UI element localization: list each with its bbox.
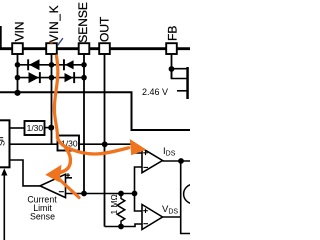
wire comparator plus input stub	[66, 177, 73, 179]
wire diode row 2	[18, 77, 85, 79]
diode D4 (VIN_K/SENSE bottom, pointing right)	[65, 73, 74, 82]
svg-text:FB: FB	[166, 26, 180, 41]
svg-text:VDS: VDS	[162, 204, 178, 216]
wire FB to amp top input	[172, 69, 187, 79]
diode D3 (VIN_K/SENSE top, pointing left)	[63, 59, 65, 70]
wire block to box1	[10, 127, 25, 129]
svg-text:1/30: 1/30	[27, 123, 44, 133]
junction dot FB	[169, 66, 175, 72]
junction dot SENSE row1	[81, 62, 87, 68]
junction dot VIN on W1	[14, 90, 20, 96]
svg-text:1 MΩ: 1 MΩ	[109, 194, 119, 214]
wire comparator output to block	[10, 160, 41, 186]
wire box2 output to IDS plus	[79, 144, 142, 153]
junction dot IDS output	[178, 158, 184, 164]
wire OUT vertical	[104, 54, 106, 227]
orange annotation descent from VIN_K	[54, 56, 58, 138]
op-amp IDS	[142, 148, 163, 173]
wire right vertical from IDS out down	[181, 161, 190, 234]
wire FB right	[172, 68, 189, 70]
resistor 1 Mohm	[117, 194, 125, 227]
wire block to box2	[10, 143, 58, 145]
wire 2.46V to amp	[177, 90, 187, 92]
plus symbol comparator	[66, 173, 70, 177]
junction dot SENSE row2	[81, 75, 87, 81]
junction dot box1/VIN_K	[48, 125, 54, 131]
wire SENSE vertical	[83, 54, 85, 194]
pen artifact blue dash above VIN_K	[58, 39, 63, 45]
wire left-edge stub above rail	[0, 26, 2, 49]
svg-text:IDS: IDS	[163, 146, 176, 158]
wire VDS output	[163, 216, 181, 218]
svg-text:S: S	[0, 140, 6, 146]
svg-text:OUT: OUT	[97, 16, 111, 42]
pin FB	[166, 43, 177, 54]
wire W1 long horizontal then down then right	[0, 92, 190, 130]
comparator U1 current limit sense (pointing left)	[40, 174, 66, 197]
diode D2 (VIN/VIN_K bottom, pointing right)	[29, 72, 39, 83]
wire IDS minus input	[135, 167, 143, 211]
minus symbol comparator	[59, 191, 64, 193]
top rail (device boundary)	[0, 47, 190, 50]
box 1/30 first	[25, 121, 45, 135]
orange arrowhead left (at comparator plus)	[45, 165, 61, 183]
wire comparator minus input (W3)	[66, 193, 135, 195]
svg-text:VIN: VIN	[12, 21, 26, 41]
block text fragment	[0, 137, 3, 138]
pin SENSE	[79, 43, 90, 54]
junction dot 1M top on W3	[118, 191, 124, 197]
junction dot 1M bottom	[118, 224, 124, 230]
pin VIN_K	[46, 43, 57, 54]
junction dot box2/OUT	[102, 141, 108, 147]
orange arrowhead right (at IDS plus)	[130, 139, 147, 155]
wire bottom OUT to VDS minus	[105, 224, 143, 227]
svg-text:2.46 V: 2.46 V	[142, 87, 168, 97]
junction dot SENSE on W3	[81, 191, 87, 197]
junction dot VIN_K row1	[49, 62, 55, 68]
junction dot V5 on W3	[132, 191, 138, 197]
multiplier circle (cropped)	[184, 184, 203, 203]
arrow into block bottom	[3, 174, 5, 240]
junction dot VIN row2	[15, 75, 21, 81]
wire VIN_K vertical	[51, 54, 53, 144]
orange knot descent to comparator plus	[54, 149, 71, 175]
pin OUT	[99, 43, 110, 54]
orange tail	[58, 178, 79, 198]
wire diode row 1	[18, 64, 85, 66]
block (left, cropped)	[0, 120, 10, 167]
svg-text:SENSE: SENSE	[76, 2, 90, 43]
diode D1 (VIN/VIN_K top, pointing left)	[27, 59, 29, 70]
faint orange dot at VIN_K pin top	[50, 41, 53, 44]
wire IDS output	[163, 160, 191, 162]
op-amp VDS	[142, 205, 163, 230]
wire VIN vertical	[17, 54, 19, 92]
wire FB vertical	[171, 54, 173, 79]
junction dot VIN row1	[15, 62, 21, 68]
box 1/30 second	[58, 136, 80, 151]
svg-text:VIN_K: VIN_K	[47, 5, 61, 43]
wire box1 to VIN_K	[45, 127, 52, 129]
error amp edge bar	[186, 67, 189, 99]
svg-text:Sense: Sense	[30, 212, 55, 222]
orange knot and right sweep	[57, 138, 128, 155]
junction dot VIN_K row2	[49, 75, 55, 81]
pin VIN	[12, 43, 23, 54]
